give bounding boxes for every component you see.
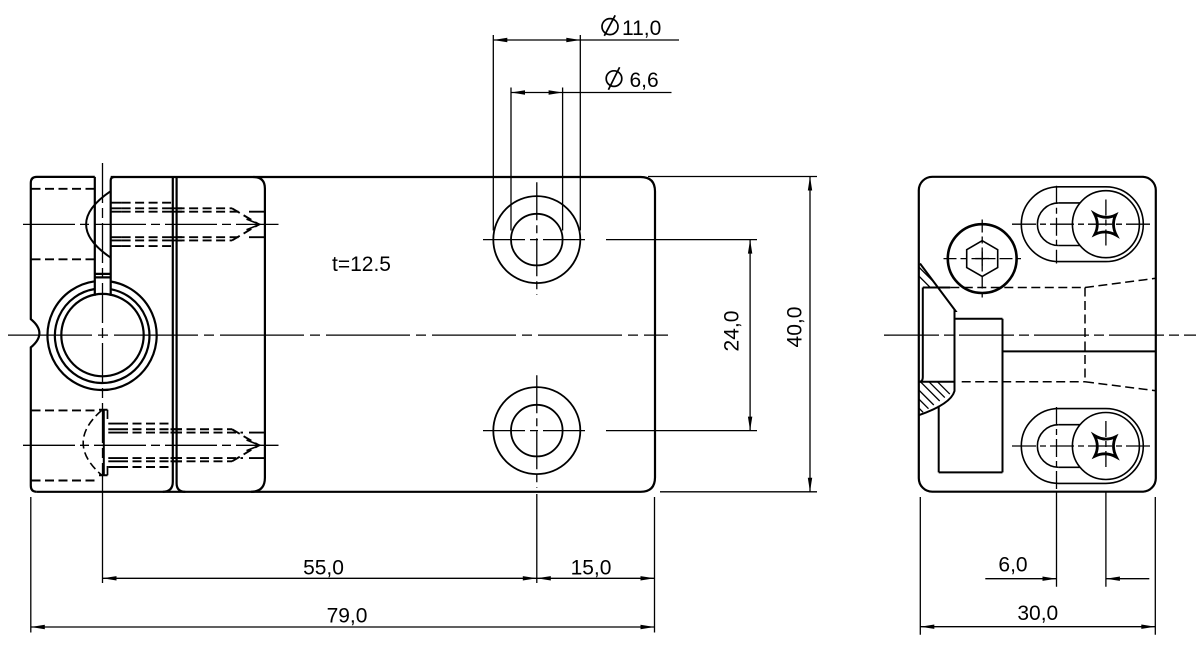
svg-text:40,0: 40,0 (784, 307, 807, 348)
svg-text:24,0: 24,0 (721, 311, 744, 352)
svg-text:30,0: 30,0 (1017, 602, 1058, 625)
svg-text:11,0: 11,0 (622, 17, 661, 40)
svg-text:t=12.5: t=12.5 (332, 253, 391, 276)
svg-text:79,0: 79,0 (327, 605, 368, 628)
svg-text:6,6: 6,6 (630, 69, 659, 92)
svg-text:6,0: 6,0 (998, 554, 1027, 577)
svg-text:55,0: 55,0 (303, 557, 344, 580)
svg-text:15,0: 15,0 (571, 557, 612, 580)
